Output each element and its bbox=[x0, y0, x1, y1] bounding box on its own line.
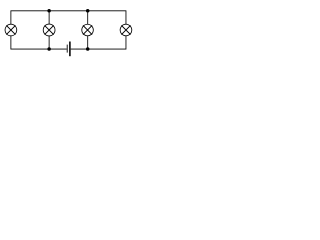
lamp L2 bbox=[43, 24, 55, 36]
wire top bus with corner drops to L1 and L4 bbox=[11, 11, 126, 24]
junction node bottom lamp L3 bbox=[86, 47, 90, 51]
lamp L1 bbox=[5, 24, 17, 36]
wire branch L3 upper lead bbox=[87, 11, 89, 24]
battery B1 positive plate (long) bbox=[69, 42, 71, 57]
wire bottom bus left with corner up to L1 bbox=[11, 36, 67, 49]
wire branch L2 upper lead bbox=[48, 11, 50, 24]
wire branch L3 lower lead bbox=[87, 36, 89, 49]
junction node top lamp L3 bbox=[86, 9, 90, 13]
wire branch L2 lower lead bbox=[48, 36, 50, 49]
lamp L3 bbox=[82, 24, 94, 36]
wire bottom bus right with corner up to L4 bbox=[71, 36, 126, 49]
junction node bottom lamp L2 bbox=[47, 47, 51, 51]
junction node top lamp L2 bbox=[47, 9, 51, 13]
lamp L4 bbox=[120, 24, 132, 36]
battery B1 negative plate (short) bbox=[66, 45, 68, 53]
